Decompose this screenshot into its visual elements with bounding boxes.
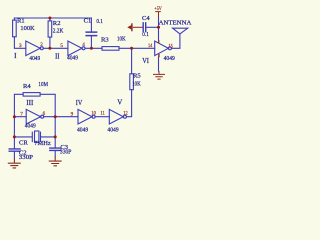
capacitor C4 (143, 23, 146, 32)
wire C2 bottom (13, 152, 15, 159)
svg-text:7: 7 (20, 112, 23, 118)
wire inverter I output to inverter II input (43, 47, 68, 49)
power +5V symbol (155, 12, 161, 17)
svg-text:ANTENNA: ANTENNA (159, 20, 192, 27)
svg-text:4049: 4049 (67, 55, 79, 62)
svg-text:C1: C1 (84, 17, 92, 24)
wire top rail (14, 17, 91, 19)
svg-text:9: 9 (71, 112, 74, 118)
svg-text:0.1: 0.1 (142, 31, 149, 38)
wire +5V to VI top (158, 17, 160, 40)
svg-text:4049: 4049 (164, 55, 176, 62)
antenna symbol (173, 28, 188, 34)
op-amp U4 inverter IV (78, 109, 92, 124)
wire III input (14, 116, 26, 118)
junction III output / R4 (54, 115, 57, 118)
capacitor C2 (9, 149, 20, 151)
ground below C3 (49, 157, 62, 166)
svg-text:R3: R3 (101, 36, 109, 43)
svg-text:III: III (26, 99, 34, 107)
svg-text:V: V (117, 99, 122, 107)
svg-text:15: 15 (169, 43, 174, 49)
wire R3 to inverter VI input (119, 47, 155, 49)
svg-text:6: 6 (43, 111, 46, 117)
svg-text:10K: 10K (132, 80, 141, 87)
wire IV output to V input (95, 116, 109, 118)
port arrow at C4 (131, 23, 133, 31)
svg-text:330P: 330P (19, 154, 34, 161)
svg-text:C4: C4 (142, 15, 150, 22)
svg-text:4049: 4049 (107, 127, 119, 134)
svg-text:5: 5 (60, 43, 63, 49)
crystal CR 7MHz (14, 132, 32, 141)
svg-text:IV: IV (76, 99, 82, 107)
junction I output / R2 (48, 47, 51, 50)
svg-text:CR: CR (19, 139, 28, 146)
pin 1 lead (VI vdd) (158, 40, 160, 43)
junction II output / C1 (90, 47, 93, 50)
svg-text:R5: R5 (133, 73, 141, 80)
op-amp U5 inverter V (109, 109, 123, 124)
op-amp U1 inverter I (26, 41, 40, 56)
ground below VI (153, 71, 165, 79)
wire inverter II output to R3 (85, 47, 102, 49)
svg-text:11: 11 (100, 111, 105, 117)
svg-text:12: 12 (123, 111, 128, 117)
svg-text:10K: 10K (117, 36, 126, 43)
svg-text:R4: R4 (23, 83, 31, 90)
svg-text:100K: 100K (20, 25, 35, 32)
wire III output to IV input (44, 116, 78, 118)
svg-text:2: 2 (40, 42, 43, 48)
resistor R4 (23, 93, 40, 97)
wire R2 bottom (49, 37, 51, 48)
wire R5 bottom to inverter V output (126, 90, 131, 117)
pin 8 lead (VI vss) (158, 54, 160, 57)
svg-text:4049: 4049 (25, 123, 37, 130)
wire C4 to +5V line (146, 26, 158, 28)
svg-text:4049: 4049 (77, 127, 89, 134)
wire inverter VI output to antenna (172, 34, 180, 48)
junction R3 / R5 (130, 47, 133, 50)
wire C1 top lead (90, 18, 92, 32)
junction R2 top (48, 17, 51, 20)
junction crystal left (13, 135, 16, 138)
svg-text:7MHz: 7MHz (34, 140, 50, 147)
wire VI bottom ground lead (158, 57, 160, 71)
svg-text:10M: 10M (38, 81, 48, 88)
ground below C2 (8, 159, 21, 168)
svg-text:4049: 4049 (29, 55, 40, 62)
svg-text:+5V: +5V (154, 6, 161, 12)
wire R4 left to input line (14, 94, 23, 148)
svg-text:R2: R2 (53, 20, 61, 27)
svg-text:II: II (55, 53, 60, 61)
wire R5 top lead (131, 48, 133, 74)
svg-text:2.2K: 2.2K (53, 28, 64, 35)
resistor R2 (49, 18, 51, 21)
svg-text:0.1: 0.1 (96, 18, 103, 25)
resistor R3 (102, 47, 119, 51)
junction III input (13, 115, 16, 118)
wire C1 bottom lead (90, 36, 92, 48)
svg-text:R1: R1 (17, 18, 25, 25)
svg-text:10: 10 (91, 111, 96, 117)
svg-text:VI: VI (142, 57, 149, 65)
op-amp U3 inverter III (26, 109, 40, 124)
svg-text:14: 14 (148, 43, 153, 49)
wire R4 right to output line (40, 94, 55, 148)
svg-text:330P: 330P (60, 148, 72, 155)
wire C3 bottom (54, 151, 56, 157)
svg-text:4: 4 (82, 42, 85, 48)
capacitor C3 (50, 148, 61, 150)
op-amp U6 inverter VI (155, 41, 169, 56)
junction +5V / C4 (157, 26, 160, 29)
op-amp U2 inverter II (68, 41, 82, 56)
resistor R1 (13, 18, 15, 20)
junction crystal right (54, 135, 57, 138)
capacitor C1 (86, 32, 96, 36)
resistor R5 (130, 74, 134, 90)
wire R1 to inverter I input (14, 37, 25, 49)
svg-text:3: 3 (19, 43, 22, 49)
